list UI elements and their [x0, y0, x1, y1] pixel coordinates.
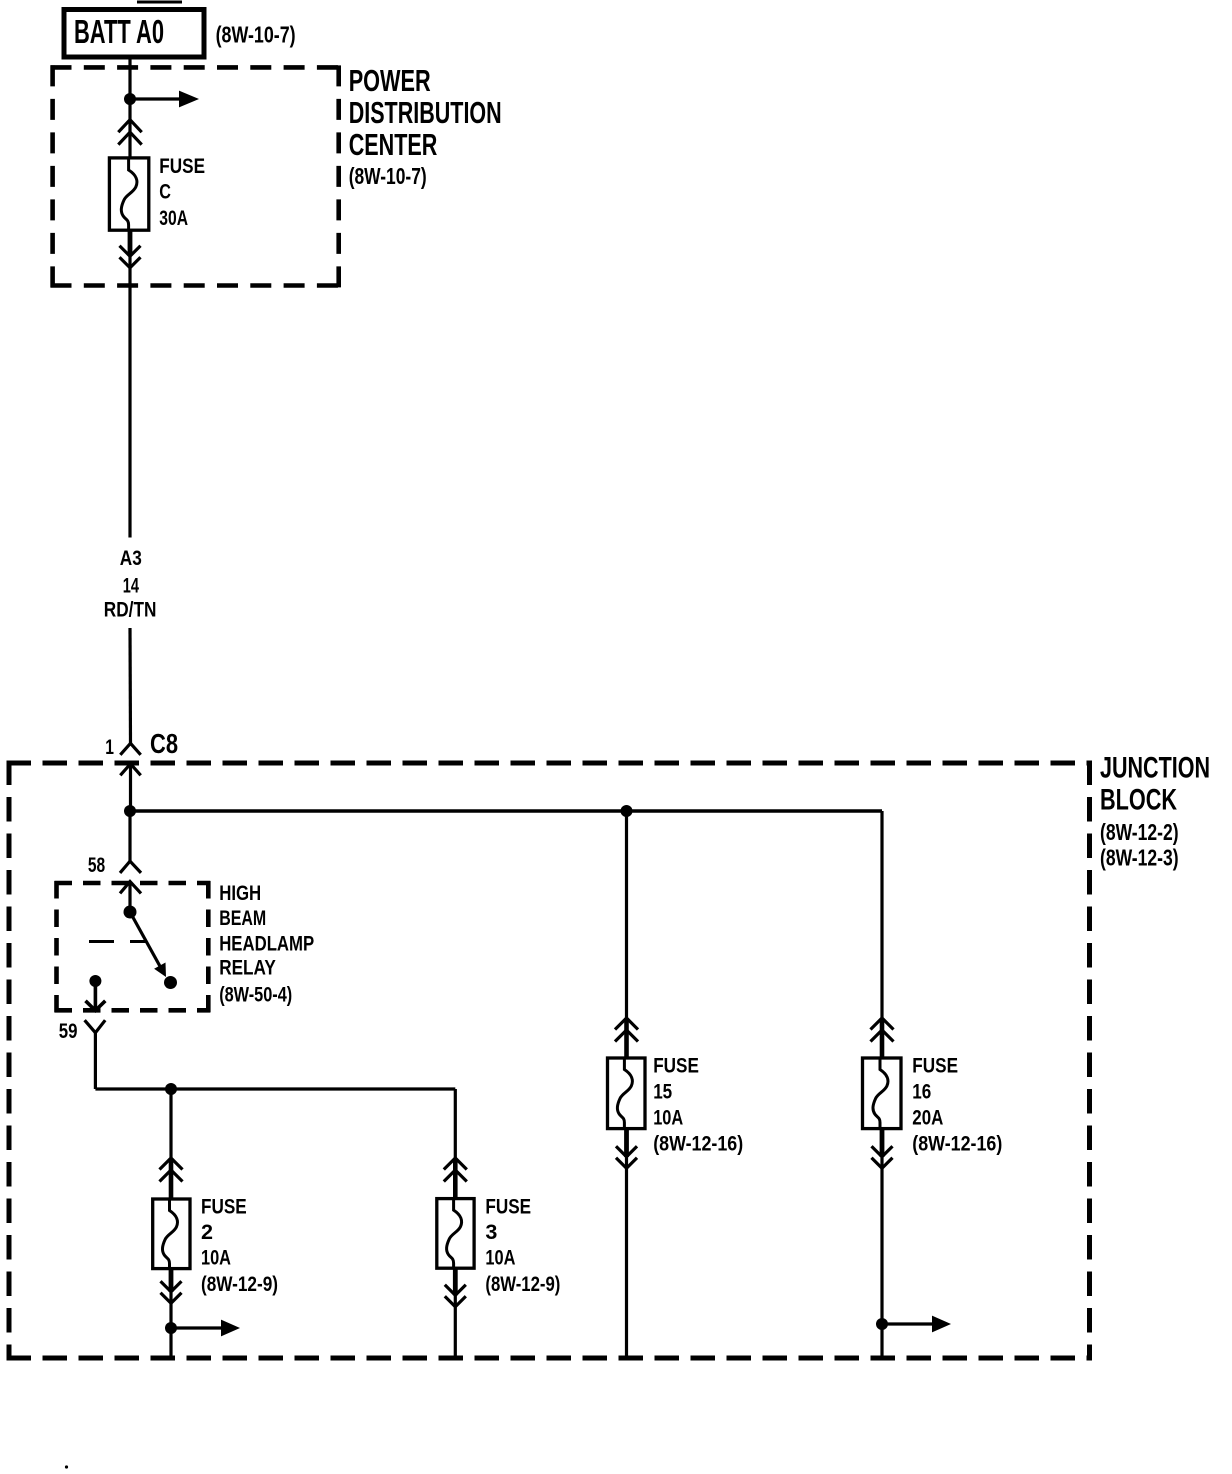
- svg-text:(8W-50-4): (8W-50-4): [219, 982, 292, 1006]
- svg-text:20A: 20A: [912, 1106, 943, 1130]
- double chevron connector below fuse C: [120, 246, 141, 268]
- svg-text:3: 3: [485, 1220, 497, 1244]
- svg-text:JUNCTION: JUNCTION: [1100, 751, 1210, 784]
- wire below fuse 3 to bottom border: [454, 1296, 457, 1359]
- svg-text:(8W-12-16): (8W-12-16): [912, 1132, 1002, 1156]
- wire into fuse 15: [624, 1018, 629, 1058]
- wire into fuse 3: [453, 1158, 458, 1199]
- svg-text:BATT A0: BATT A0: [74, 13, 164, 50]
- node splice below fuse 2: [165, 1322, 177, 1334]
- wire below fuse 2 to bottom border: [169, 1292, 172, 1358]
- node splice at fuse 15 branch: [621, 805, 633, 817]
- double chevron connector above fuse 2: [160, 1158, 183, 1182]
- label fuse 2 10A (8W-12-9): [201, 1195, 278, 1297]
- node splice at fuse 2 branch: [165, 1083, 177, 1095]
- wire from PDC down to label A3: [128, 256, 131, 538]
- thick shaft below fuse 2: [169, 1269, 174, 1292]
- wire down to relay pin 58: [128, 811, 131, 862]
- wire from BATT A0 down into PDC: [128, 59, 131, 158]
- node splice in PDC: [124, 93, 136, 105]
- fuse 2: [153, 1199, 190, 1269]
- svg-text:C: C: [159, 180, 171, 204]
- wire below fuse 16 to bottom border: [880, 1157, 883, 1358]
- thick shaft below fuse 16: [880, 1129, 885, 1157]
- label fuse 16 20A (8W-12-16): [912, 1054, 1002, 1156]
- double chevron connector below fuse 3: [445, 1285, 466, 1307]
- junction block label: [1100, 751, 1210, 870]
- node splice below fuse 16: [876, 1318, 888, 1330]
- svg-text:10A: 10A: [653, 1106, 683, 1130]
- connector C8 female fork: [120, 743, 140, 755]
- relay switch arm with arrowhead: [130, 912, 166, 977]
- wire down to fuse 16: [880, 811, 883, 1019]
- power distribution center dashed box: [51, 65, 339, 287]
- svg-text:FUSE: FUSE: [159, 154, 205, 178]
- svg-text:HEADLAMP: HEADLAMP: [219, 932, 314, 956]
- pin 59 male arrow pointing down: [86, 981, 106, 1011]
- svg-text:(8W-10-7): (8W-10-7): [216, 22, 296, 48]
- pin 59 female fork: [85, 1020, 106, 1032]
- PDC label POWER DISTRIBUTION CENTER (8W-10-7): [349, 63, 502, 189]
- svg-text:(8W-12-16): (8W-12-16): [653, 1132, 743, 1156]
- wire down to fuse 3: [454, 1089, 457, 1159]
- svg-text:FUSE: FUSE: [201, 1195, 247, 1219]
- svg-text:BLOCK: BLOCK: [1100, 783, 1177, 816]
- fuse C: [109, 158, 148, 230]
- svg-text:14: 14: [123, 573, 139, 597]
- junction block dashed box: [7, 761, 1093, 1361]
- svg-text:16: 16: [912, 1080, 931, 1104]
- svg-text:FUSE: FUSE: [485, 1195, 531, 1219]
- svg-text:(8W-12-3): (8W-12-3): [1100, 845, 1179, 871]
- wire from pin 59 down and right: [95, 1033, 455, 1089]
- svg-text:(8W-10-7): (8W-10-7): [349, 163, 427, 189]
- svg-text:FUSE: FUSE: [653, 1054, 699, 1078]
- label fuse 3 10A (8W-12-9): [485, 1195, 560, 1297]
- fuse 15: [608, 1058, 646, 1129]
- wire into fuse 16: [880, 1018, 885, 1058]
- wire below fuse 15 to bottom border: [625, 1157, 628, 1358]
- double chevron connector below fuse 2: [161, 1281, 182, 1303]
- svg-text:RD/TN: RD/TN: [104, 597, 157, 621]
- svg-text:15: 15: [653, 1080, 672, 1104]
- pin 58 male arrow: [120, 882, 141, 913]
- high beam headlamp relay dashed box: [55, 881, 211, 1012]
- double chevron connector below fuse 15: [616, 1146, 637, 1168]
- wire from label down to connector C8: [128, 628, 132, 744]
- svg-text:1: 1: [105, 735, 114, 759]
- wire into fuse 2: [169, 1158, 174, 1199]
- stray mark bottom left: [65, 1465, 68, 1468]
- scan artifact line at top edge: [137, 1, 182, 4]
- svg-text:58: 58: [88, 853, 105, 877]
- double chevron connector above fuse 16: [871, 1018, 894, 1042]
- svg-text:(8W-12-9): (8W-12-9): [201, 1272, 278, 1296]
- svg-text:HIGH: HIGH: [219, 881, 261, 905]
- fuse 3: [437, 1199, 474, 1269]
- label fuse 15 10A (8W-12-16): [653, 1054, 743, 1156]
- relay output contact node: [89, 975, 101, 987]
- double chevron connector above fuse C: [118, 120, 141, 145]
- svg-text:C8: C8: [150, 728, 178, 759]
- thick shaft below fuse 15: [624, 1129, 629, 1157]
- svg-text:RELAY: RELAY: [219, 956, 276, 980]
- svg-text:(8W-12-2): (8W-12-2): [1100, 819, 1179, 845]
- svg-text:59: 59: [59, 1019, 78, 1043]
- svg-text:POWER: POWER: [349, 63, 431, 98]
- pin 58 female fork: [120, 861, 141, 873]
- arrow feed continuing right inside PDC: [130, 91, 199, 108]
- svg-text:BEAM: BEAM: [219, 906, 266, 930]
- svg-text:A3: A3: [120, 546, 142, 570]
- relay label HIGH BEAM HEADLAMP RELAY (8W-50-4): [219, 881, 314, 1007]
- double chevron connector below fuse 16: [872, 1146, 893, 1168]
- relay common contact node: [124, 906, 137, 919]
- svg-text:30A: 30A: [159, 206, 188, 230]
- wire down to fuse 15: [625, 811, 628, 1019]
- double chevron connector above fuse 15: [615, 1018, 638, 1042]
- node splice at top of junction block: [124, 805, 136, 817]
- battery feed box BATT A0: [64, 10, 204, 58]
- thick shaft below fuse C: [128, 230, 133, 256]
- svg-text:(8W-12-9): (8W-12-9): [485, 1272, 560, 1296]
- label fuse C 30A: [159, 154, 205, 230]
- svg-text:CENTER: CENTER: [349, 127, 438, 162]
- horizontal bus wire to fuse 15 and fuse 16: [130, 809, 882, 812]
- connector C8 male arrow: [120, 764, 140, 811]
- relay fixed contact node: [164, 976, 177, 989]
- thick shaft below fuse 3: [453, 1268, 458, 1295]
- svg-text:10A: 10A: [485, 1246, 515, 1270]
- wire down to fuse 2: [169, 1089, 172, 1159]
- double chevron connector above fuse 3: [444, 1158, 467, 1182]
- svg-text:DISTRIBUTION: DISTRIBUTION: [349, 95, 502, 130]
- arrow feed continuing right from fuse 16: [882, 1316, 951, 1333]
- arrow feed continuing right from fuse 2: [171, 1320, 240, 1337]
- svg-text:FUSE: FUSE: [912, 1054, 958, 1078]
- fuse 16: [863, 1058, 902, 1129]
- relay internal dashed divider: [89, 940, 146, 943]
- svg-text:10A: 10A: [201, 1246, 231, 1270]
- svg-text:2: 2: [201, 1220, 213, 1244]
- wire label A3 14 RD/TN: [104, 546, 157, 621]
